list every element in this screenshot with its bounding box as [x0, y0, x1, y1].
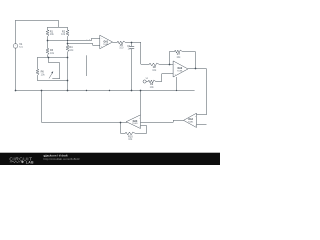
- svg-text:LAB: LAB: [26, 160, 34, 164]
- svg-text:R10: R10: [128, 135, 133, 138]
- svg-text:V2: V2: [146, 78, 148, 80]
- svg-text:+: +: [195, 116, 196, 118]
- svg-text:TL081: TL081: [103, 44, 108, 46]
- svg-text:+: +: [89, 39, 90, 41]
- svg-text:TL081: TL081: [177, 70, 182, 72]
- svg-text:−: −: [139, 126, 140, 128]
- svg-text:+: +: [139, 118, 140, 120]
- svg-text:http://circuitlab.com/c6v8rd3: http://circuitlab.com/c6v8rd3: [44, 157, 80, 161]
- svg-text:−: −: [195, 125, 196, 127]
- svg-text:100: 100: [119, 47, 124, 50]
- svg-text:TL081: TL081: [188, 121, 193, 123]
- svg-text:−: −: [86, 39, 87, 41]
- svg-text:TL081: TL081: [132, 123, 137, 125]
- svg-text:5 V: 5 V: [19, 46, 23, 49]
